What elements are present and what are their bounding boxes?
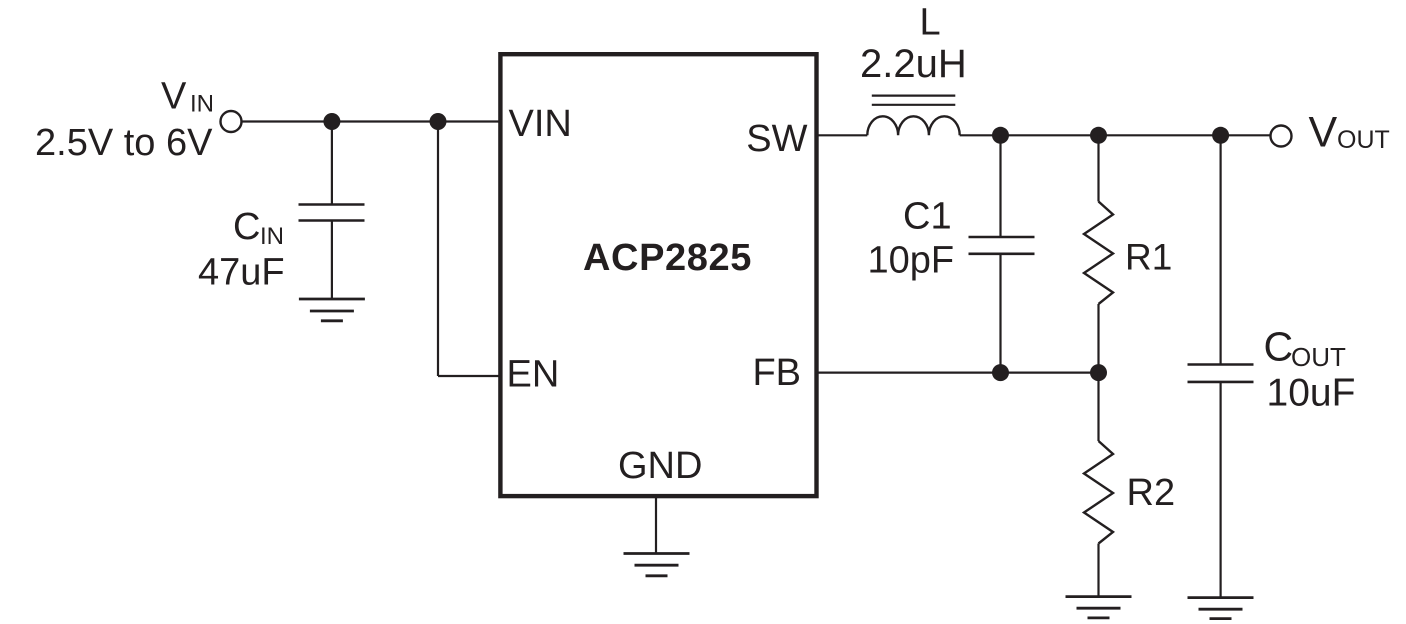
svg-text:FB: FB: [752, 352, 801, 394]
ground IC GND: [624, 554, 690, 576]
resistor R1 zigzag: [1084, 202, 1113, 305]
svg-text:GND: GND: [618, 445, 702, 487]
node junction dot C1 bottom on FB: [992, 364, 1009, 381]
wire output node line SW to VOUT: [960, 134, 1271, 136]
capacitor C1 plates: [969, 236, 1035, 239]
node junction dot COUT top: [1212, 127, 1229, 144]
wire SW pin to inductor: [817, 134, 868, 136]
svg-text:IN: IN: [260, 223, 284, 250]
wire C1 top lead: [999, 135, 1001, 237]
capacitor CIN plates: [299, 203, 365, 206]
svg-text:C: C: [233, 206, 260, 248]
wire FB pin to divider: [817, 372, 1099, 374]
node junction dot R1/R2 on FB: [1090, 364, 1107, 381]
wire CIN bottom lead: [331, 221, 333, 300]
op-amp U1 ACP2825 IC box: [500, 54, 816, 496]
wire R1 top lead: [1097, 135, 1099, 201]
terminal VIN (input port circle): [221, 111, 242, 132]
wire GND pin lead: [655, 496, 657, 554]
svg-text:2.2uH: 2.2uH: [860, 42, 967, 86]
ground CIN: [299, 299, 365, 321]
svg-text:C: C: [1264, 324, 1294, 370]
wire COUT bottom lead: [1219, 382, 1221, 598]
inductor L winding: [867, 116, 959, 135]
svg-text:SW: SW: [746, 118, 807, 160]
svg-text:L: L: [920, 2, 941, 44]
wire EN horizontal to IC: [438, 375, 500, 377]
svg-text:R1: R1: [1125, 237, 1172, 278]
svg-text:V: V: [161, 76, 187, 118]
inductor L core lines: [872, 94, 956, 96]
svg-text:V: V: [1309, 109, 1338, 157]
svg-text:R2: R2: [1127, 472, 1176, 514]
svg-text:10pF: 10pF: [868, 240, 955, 282]
wire CIN top lead: [331, 122, 333, 205]
terminal VOUT (output port circle): [1271, 126, 1292, 147]
svg-text:47uF: 47uF: [198, 252, 285, 294]
svg-text:IN: IN: [190, 91, 214, 118]
node junction dot R1 top: [1090, 127, 1107, 144]
svg-text:OUT: OUT: [1337, 126, 1390, 154]
wire C1 bottom lead: [999, 254, 1001, 373]
node junction dot C1 top: [992, 127, 1009, 144]
capacitor COUT plates: [1188, 363, 1254, 366]
svg-text:EN: EN: [507, 354, 560, 396]
wire R2 top lead: [1097, 373, 1099, 441]
svg-text:ACP2825: ACP2825: [583, 237, 752, 279]
node junction dot CIN tap: [323, 113, 340, 130]
node junction dot EN tap: [430, 113, 447, 130]
ground COUT: [1188, 598, 1254, 619]
wire input VIN terminal to IC: [242, 120, 501, 122]
wire R2 bottom lead: [1097, 544, 1099, 597]
svg-text:10uF: 10uF: [1267, 372, 1356, 415]
svg-text:C1: C1: [903, 196, 952, 238]
resistor R2 zigzag: [1084, 441, 1113, 544]
svg-text:2.5V to 6V: 2.5V to 6V: [35, 122, 213, 164]
wire EN vertical from input node: [437, 122, 439, 377]
svg-text:OUT: OUT: [1291, 342, 1346, 372]
ground R2: [1066, 597, 1132, 618]
svg-text:VIN: VIN: [509, 103, 572, 145]
wire COUT top lead: [1219, 135, 1221, 364]
wire R1 bottom lead: [1097, 304, 1099, 373]
